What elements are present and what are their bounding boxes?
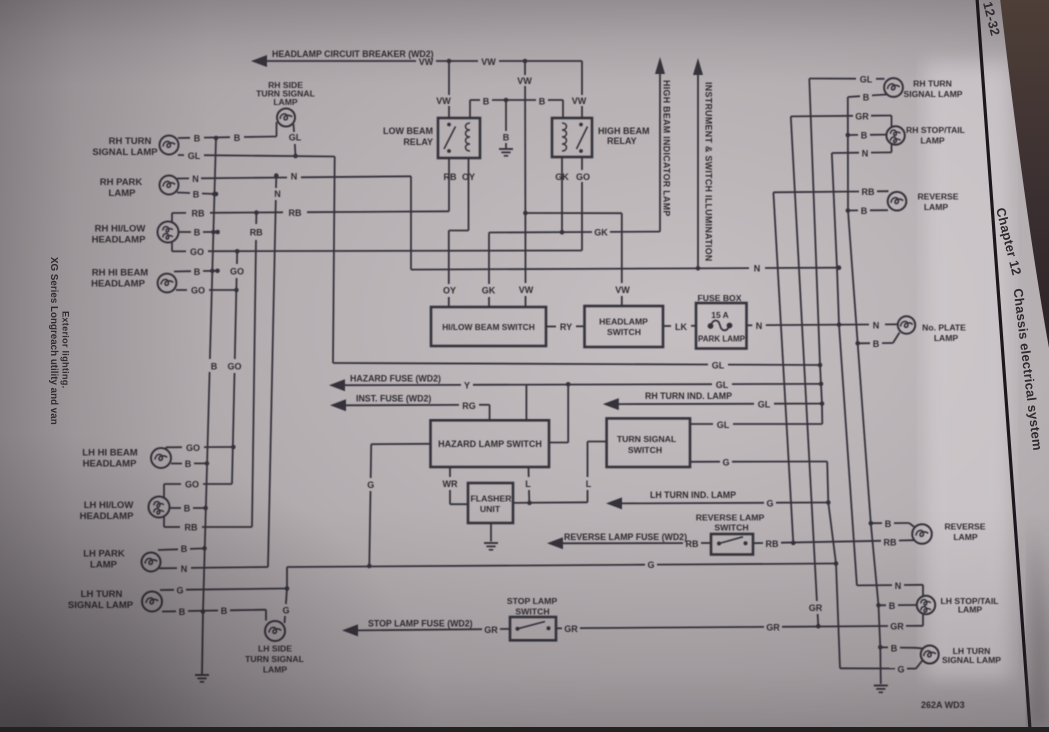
wire GL pin RH side lamp bbox=[293, 124, 296, 132]
wire N bus vertical right bbox=[832, 153, 857, 585]
svg-text:HEADLAMP: HEADLAMP bbox=[599, 317, 648, 327]
wire G from turn signal switch bbox=[690, 461, 720, 463]
svg-text:GO: GO bbox=[230, 267, 244, 277]
svg-text:GL: GL bbox=[289, 133, 302, 143]
wire B RH hi beam bbox=[174, 270, 191, 272]
wire B LH turn signal bbox=[162, 610, 176, 612]
junction B reverse-upper bbox=[846, 208, 851, 213]
wire N bottom to LH stop/tail bbox=[857, 584, 892, 586]
lamp RH HI BEAM HEADLAMP bbox=[158, 274, 177, 293]
switch S5 REVERSE LAMP SWITCH box bbox=[711, 534, 753, 555]
svg-text:GL: GL bbox=[717, 420, 730, 430]
svg-text:RELAY: RELAY bbox=[607, 136, 637, 146]
wire hazard right pin to GL line bbox=[548, 442, 568, 444]
switch S6 STOP LAMP SWITCH box bbox=[510, 617, 556, 640]
arrow HAZARD FUSE (WD2) bbox=[329, 379, 345, 391]
junction B RH park bbox=[214, 192, 219, 197]
wire G bus vertical right bbox=[827, 462, 840, 669]
svg-text:TURN SIGNAL: TURN SIGNAL bbox=[617, 434, 677, 444]
lamp LH TURN SIGNAL LAMP bbox=[142, 592, 162, 612]
wire high beam indicator vertical bbox=[659, 74, 661, 232]
page edge rule bbox=[977, 0, 1030, 729]
svg-text:B: B bbox=[234, 133, 241, 143]
svg-text:RH STOP/TAIL: RH STOP/TAIL bbox=[906, 125, 965, 135]
arrow INST. FUSE (WD2) bbox=[330, 399, 346, 411]
wire B pin RH side lamp bbox=[276, 122, 278, 137]
wire B LH hi/low bbox=[170, 507, 181, 509]
wire WR pin hazard switch bbox=[449, 467, 451, 477]
svg-text:HI/LOW BEAM SWITCH: HI/LOW BEAM SWITCH bbox=[442, 322, 535, 332]
svg-text:N: N bbox=[756, 321, 763, 331]
junction B RH hi/low level marks bbox=[212, 192, 217, 197]
wire N to LH park lamp bbox=[159, 567, 177, 569]
wire RB from low beam relay down bbox=[448, 158, 450, 211]
svg-text:RB: RB bbox=[862, 187, 875, 197]
wire REVERSE LAMP FUSE arrow line bbox=[562, 542, 683, 544]
svg-text:VW: VW bbox=[572, 96, 587, 106]
lamp RH STOP/TAIL LAMP bbox=[886, 126, 904, 144]
wire B top to RH turn signal lamp bbox=[848, 95, 860, 98]
arrow LH TURN IND. LAMP bbox=[606, 497, 622, 509]
lamp RH HI/LOW HEADLAMP bbox=[158, 222, 179, 243]
wire instrument illumination vertical bbox=[697, 75, 699, 268]
svg-text:RH TURN IND. LAMP: RH TURN IND. LAMP bbox=[645, 391, 732, 401]
wire N line upper bbox=[177, 177, 189, 179]
wire GK from high beam relay bbox=[561, 157, 563, 232]
bright right margin strip bbox=[925, 60, 1010, 680]
switch S2 HEADLAMP SWITCH box bbox=[585, 306, 664, 347]
stop switch contacts bbox=[516, 627, 520, 631]
wire RB bus vertical right bbox=[773, 192, 793, 543]
svg-text:LAMP: LAMP bbox=[924, 202, 949, 212]
wire N RH stop/tail bbox=[832, 152, 859, 154]
junction GR bus bottom bbox=[816, 624, 821, 629]
wire G pin LH side lamp bbox=[286, 589, 287, 605]
relay U2 switch contact bbox=[579, 123, 583, 127]
lamp RH SIDE TURN SIGNAL LAMP bbox=[277, 109, 295, 127]
junction RB bus bottom bbox=[791, 541, 796, 546]
wire B pin LH side lamp bbox=[265, 610, 267, 621]
wire G long line bbox=[287, 565, 645, 567]
wire RB from reverse switch to lamp bbox=[753, 542, 763, 544]
svg-text:FLASHER: FLASHER bbox=[470, 494, 512, 504]
lamp LH PARK LAMP bbox=[142, 553, 161, 572]
vignette overlays (photo lighting) bbox=[0, 507, 1049, 727]
wire G LH turn signal bbox=[160, 589, 174, 591]
switch S4 TURN SIGNAL SWITCH box bbox=[607, 418, 690, 467]
ground flasher bbox=[484, 542, 498, 544]
wire LH TURN IND arrow line bbox=[621, 502, 764, 505]
wire RB bracket RH hi/low bbox=[171, 213, 173, 223]
junction GO LH hi beam bbox=[231, 445, 236, 450]
svg-text:GK: GK bbox=[482, 286, 496, 296]
junction G side lamp bbox=[285, 586, 290, 591]
wire B reverse-upper lamp bbox=[848, 209, 858, 211]
junction N bus bbox=[274, 173, 279, 178]
wire B LH stop/tail bbox=[879, 604, 887, 606]
svg-text:GO: GO bbox=[227, 362, 241, 372]
svg-text:N: N bbox=[754, 264, 761, 274]
arrow to headlamp circuit breaker bbox=[251, 55, 267, 67]
svg-text:LAMP: LAMP bbox=[920, 135, 945, 145]
wire hazard fuse Y GL line bbox=[344, 384, 461, 386]
relay U1 switch contact bbox=[447, 123, 451, 127]
wire G to LH turn right bbox=[840, 667, 895, 669]
arrow INSTRUMENT & SWITCH ILLUMINATION bbox=[693, 58, 703, 75]
ground between relays bbox=[499, 148, 513, 150]
svg-text:G: G bbox=[722, 457, 729, 467]
wire RY link bbox=[546, 326, 556, 328]
lamp RH PARK LAMP bbox=[160, 176, 179, 195]
wire flasher to turn signal switch L bbox=[513, 501, 588, 504]
svg-text:B: B bbox=[211, 362, 218, 372]
svg-text:N: N bbox=[873, 320, 880, 330]
svg-text:GL: GL bbox=[712, 361, 725, 371]
wire GL vertical to hazard level bbox=[333, 157, 335, 364]
wire RB top to reverse lamp bbox=[773, 191, 859, 194]
svg-text:LAMP: LAMP bbox=[273, 97, 298, 107]
junction VW-lowbeam relay bbox=[447, 59, 452, 64]
wire GO LH hi/low bbox=[164, 483, 181, 485]
switch S1 HI/LOW BEAM SWITCH box bbox=[431, 307, 546, 346]
svg-text:HIGH BEAM: HIGH BEAM bbox=[598, 126, 650, 136]
svg-text:OY: OY bbox=[443, 286, 456, 296]
wire GR bus vertical right bbox=[791, 116, 817, 601]
junction N end bbox=[837, 265, 842, 270]
svg-text:RB: RB bbox=[250, 228, 263, 238]
wire B reverse-lower bbox=[871, 522, 882, 524]
junction B plate bbox=[855, 341, 860, 346]
wire VW supply top line bbox=[258, 60, 416, 62]
wire VW to low beam relay switch bbox=[448, 61, 450, 95]
arrow STOP LAMP FUSE (WD2) bbox=[342, 624, 358, 636]
svg-text:INSTRUMENT & SWITCH ILLUMINATI: INSTRUMENT & SWITCH ILLUMINATION bbox=[704, 82, 714, 262]
wire VW branch to headlamp switch bbox=[525, 212, 621, 214]
junction GO bus top bbox=[235, 249, 240, 254]
svg-text:LK: LK bbox=[675, 322, 687, 332]
lamp LH HI/LOW HEADLAMP bbox=[149, 497, 170, 518]
lamp LH HI BEAM HEADLAMP bbox=[151, 448, 171, 468]
wire B RH park bbox=[177, 192, 190, 195]
svg-text:VW: VW bbox=[519, 285, 534, 295]
relay U2 HIGH BEAM RELAY box bbox=[552, 118, 592, 157]
svg-text:VW: VW bbox=[615, 285, 630, 295]
svg-text:B: B bbox=[539, 97, 546, 107]
wire GR top line to RH stop/tail bbox=[791, 115, 853, 118]
wire B bus vertical right bbox=[848, 97, 881, 684]
unit U3 FLASHER UNIT box bbox=[468, 483, 513, 523]
junction G end bbox=[834, 561, 839, 566]
wire VW to high beam relay switch bbox=[581, 61, 583, 95]
junction B RH hi/low bbox=[215, 230, 220, 235]
wire VW middle vertical to hi/low beam switch bbox=[524, 61, 526, 75]
wire GR stop lamp line bbox=[357, 629, 482, 630]
wire RB to RH hi/low headlamp bbox=[172, 212, 186, 214]
junction GO RH hi beam bbox=[234, 288, 239, 293]
svg-text:RELAY: RELAY bbox=[403, 137, 433, 147]
junction G hazard bbox=[367, 564, 372, 569]
page stack shadow bottom right bbox=[1028, 520, 1049, 729]
junction GL long bbox=[818, 363, 823, 368]
wire GO from high beam relay bbox=[581, 157, 583, 170]
wire B RH hi/low bbox=[179, 231, 191, 233]
lamp LH TURN SIGNAL LAMP right bbox=[921, 646, 939, 664]
ground right bus bbox=[874, 685, 888, 687]
junction B LH turn right bbox=[878, 645, 883, 650]
svg-text:FUSE BOX: FUSE BOX bbox=[698, 293, 742, 303]
svg-text:B: B bbox=[503, 133, 510, 143]
svg-text:B: B bbox=[483, 97, 490, 107]
wire G pin hazard switch bbox=[371, 443, 430, 445]
lamp REVERSE LAMP (rear RH) bbox=[888, 192, 907, 211]
wire GO bus vertical bbox=[236, 251, 238, 264]
wire VW pin headlamp switch bbox=[621, 213, 623, 283]
wire low beam relay coil pin bbox=[469, 100, 471, 118]
reverse switch contacts bbox=[717, 542, 721, 546]
wire B LH park bbox=[158, 548, 178, 551]
wire GL top to RH turn signal lamp bbox=[809, 78, 856, 80]
wire RB bus vertical bbox=[255, 213, 257, 224]
wire GK line to indicator bbox=[489, 231, 592, 234]
wire N corner vertical bbox=[410, 176, 412, 269]
junction GK bbox=[560, 230, 565, 235]
wire B RH turn signal bbox=[178, 137, 190, 139]
wire N from fuse box to plate lamp bbox=[747, 324, 753, 326]
lamp RH TURN SIGNAL LAMP bbox=[160, 136, 179, 155]
wire B LH hi beam bbox=[171, 463, 182, 465]
junction B bus top bbox=[214, 136, 219, 141]
svg-text:LOW BEAM: LOW BEAM bbox=[383, 126, 433, 136]
svg-text:HIGH BEAM INDICATOR LAMP: HIGH BEAM INDICATOR LAMP bbox=[662, 80, 672, 217]
wire flasher ground pin bbox=[490, 523, 492, 542]
svg-text:XG Series Longreach utility an: XG Series Longreach utility and van bbox=[48, 257, 59, 425]
svg-text:RB: RB bbox=[289, 208, 302, 218]
svg-text:N: N bbox=[862, 148, 869, 158]
svg-text:B: B bbox=[873, 339, 880, 349]
wire GL long line bbox=[333, 363, 708, 365]
svg-text:GL: GL bbox=[716, 380, 729, 390]
svg-text:LAMP: LAMP bbox=[934, 333, 959, 343]
svg-text:B: B bbox=[861, 206, 868, 216]
lamp LH SIDE TURN SIGNAL LAMP bbox=[265, 621, 285, 641]
wire N bus vertical left bbox=[275, 176, 277, 188]
wire RG pin hazard switch bbox=[489, 405, 491, 421]
junction GL hazard line bbox=[819, 382, 824, 387]
arrow HIGH BEAM INDICATOR LAMP bbox=[655, 57, 665, 74]
wire GO RH hi beam bbox=[176, 289, 187, 291]
junction VW-headlamp switch branch bbox=[523, 211, 528, 216]
wire B plate lamp bbox=[858, 342, 870, 344]
switch S3 HAZARD LAMP SWITCH box bbox=[431, 420, 550, 467]
arrow REVERSE LAMP FUSE (WD2) bbox=[547, 537, 563, 549]
svg-text:LH TURN IND. LAMP: LH TURN IND. LAMP bbox=[650, 490, 736, 500]
svg-text:B: B bbox=[863, 93, 870, 103]
svg-text:REVERSE: REVERSE bbox=[917, 192, 958, 202]
wire B LH turn right bbox=[880, 646, 888, 648]
ground left bus bbox=[195, 674, 209, 676]
junction B-ground branch bbox=[504, 98, 509, 103]
junction B RH hi beam bbox=[215, 269, 220, 274]
fuse element 15A bbox=[708, 323, 714, 329]
junction GL turn-ind bbox=[820, 401, 825, 406]
wire GK pin of hi/low switch bbox=[488, 233, 490, 285]
svg-text:SWITCH: SWITCH bbox=[607, 327, 641, 337]
svg-text:SWITCH: SWITCH bbox=[628, 445, 662, 455]
svg-text:Exterior lighting.: Exterior lighting. bbox=[61, 311, 71, 388]
svg-text:N: N bbox=[274, 189, 281, 199]
fusebox F1 FUSE BOX bbox=[696, 303, 747, 349]
arrow RH TURN IND. LAMP bbox=[603, 398, 619, 410]
wire B bus vertical left bbox=[210, 138, 216, 359]
junction B stop/tail bbox=[846, 133, 851, 138]
svg-text:GR: GR bbox=[855, 111, 869, 121]
wire B to ground between relays bbox=[505, 100, 507, 131]
relay U2 coil bbox=[562, 123, 567, 151]
junction VW-midfeed bbox=[523, 59, 528, 64]
junction GL side lamp bbox=[293, 154, 298, 159]
relay U1 coil bbox=[466, 123, 471, 151]
wire RH TURN IND arrow line bbox=[618, 403, 754, 405]
wire OY from low beam relay bbox=[468, 158, 470, 231]
svg-text:SIGNAL LAMP: SIGNAL LAMP bbox=[903, 89, 962, 99]
wire inst fuse RG line bbox=[345, 404, 459, 406]
lamp RH TURN SIGNAL LAMP right bbox=[884, 78, 903, 97]
wire B RH stop/tail bbox=[848, 134, 858, 136]
lamp LH STOP/TAIL LAMP bbox=[917, 596, 935, 614]
wire GL RH turn signal bbox=[178, 154, 184, 156]
wire L pin hazard switch bbox=[528, 467, 530, 477]
lamp No. PLATE LAMP bbox=[898, 316, 915, 333]
svg-text:L: L bbox=[525, 479, 531, 489]
svg-text:PARK LAMP: PARK LAMP bbox=[698, 335, 746, 344]
wire high beam relay coil pin bbox=[562, 100, 564, 118]
svg-text:15 A: 15 A bbox=[711, 310, 728, 320]
wire GR from stop switch to LH stop/tail bbox=[556, 627, 562, 629]
svg-text:RY: RY bbox=[560, 322, 572, 332]
junction N fuse line bbox=[837, 322, 842, 327]
relay U1 LOW BEAM RELAY box bbox=[438, 118, 480, 158]
wire GL bus vertical right bbox=[809, 79, 822, 425]
svg-text:VW: VW bbox=[436, 96, 451, 106]
svg-text:N: N bbox=[291, 172, 298, 182]
wire B between relay coils bbox=[470, 99, 480, 101]
wire GL from turn signal switch bbox=[690, 423, 713, 425]
junction B reverse-lower bbox=[869, 521, 874, 526]
junction RB bus bbox=[254, 210, 259, 215]
wire GO bracket RH hi/low bbox=[171, 242, 173, 251]
wire Y pin hazard switch bbox=[525, 385, 527, 420]
svg-text:B: B bbox=[861, 131, 868, 141]
lamp REVERSE LAMP (rear LH) bbox=[912, 524, 932, 544]
wire GO long line to left bbox=[172, 250, 186, 252]
junction L bbox=[527, 501, 532, 506]
svg-text:GK: GK bbox=[594, 228, 608, 238]
junction illumination-N bbox=[696, 266, 701, 271]
wire N long line bbox=[411, 268, 749, 270]
svg-text:L: L bbox=[586, 479, 592, 489]
junction B LH stop/tail bbox=[876, 603, 881, 608]
svg-text:RB: RB bbox=[444, 172, 457, 182]
svg-text:GO: GO bbox=[576, 172, 590, 182]
book backing top right corner bbox=[1000, 0, 1049, 348]
svg-text:No. PLATE: No. PLATE bbox=[922, 323, 966, 333]
wire RB to LH hi/low headlamp bbox=[164, 526, 180, 528]
svg-text:GL: GL bbox=[758, 400, 771, 410]
wire GO LH hi beam bbox=[166, 446, 182, 448]
wire G up corner to long G line bbox=[286, 567, 288, 589]
wire LK link bbox=[663, 325, 671, 327]
